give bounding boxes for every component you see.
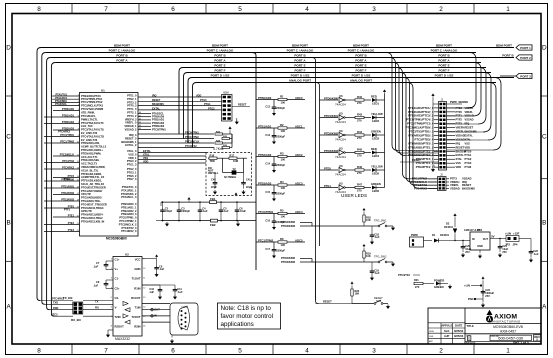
capacitor C17 — [273, 242, 275, 248]
svg-text:R21: R21 — [414, 278, 419, 282]
svg-text:PTB1/AD1: PTB1/AD1 — [258, 124, 272, 128]
svg-text:VREFH: VREFH — [456, 126, 465, 130]
ground under C19 — [371, 274, 373, 276]
J1 right pin wires and labels — [447, 106, 478, 169]
svg-text:GND: GND — [477, 245, 483, 248]
svg-text:15: 15 — [143, 316, 145, 318]
svg-text:RESET_0: RESET_0 — [125, 136, 137, 140]
J1 left pin wires and labels — [406, 106, 439, 169]
svg-text:10M: 10M — [233, 159, 238, 163]
svg-text:VREFH_3: VREFH_3 — [125, 117, 137, 121]
svg-text:PTG3_1: PTG3_1 — [127, 170, 137, 174]
svg-text:A: A — [542, 304, 547, 311]
svg-text:LED4: LED4 — [372, 154, 380, 158]
svg-text:BDM PORT: BDM PORT — [496, 44, 512, 48]
svg-text:8/25/04: 8/25/04 — [454, 334, 464, 338]
svg-text:U3: U3 — [339, 147, 343, 151]
svg-text:10: 10 — [143, 268, 145, 270]
svg-text:GPIO,TR: GPIO,TR — [81, 209, 92, 213]
svg-text:PTE1: PTE1 — [68, 215, 75, 218]
svg-text:PORT B: PORT B — [438, 54, 450, 58]
svg-text:PTC3/TX2: PTC3/TX2 — [185, 145, 197, 148]
svg-text:TBD: TBD — [210, 159, 215, 163]
svg-text:42: 42 — [139, 119, 141, 121]
IC U1 right pin wires to pull-ups — [138, 132, 214, 149]
resistor R6 — [256, 237, 305, 247]
svg-text:INSTALL: INSTALL — [208, 171, 219, 175]
svg-text:B: B — [542, 220, 546, 227]
LED LED6 GREEN — [371, 182, 385, 193]
svg-text:TXD: TXD — [53, 301, 58, 305]
svg-text:5: 5 — [111, 297, 112, 299]
bus line PORT F — [188, 72, 492, 74]
bus left wrap corners — [37, 48, 55, 67]
svg-text:LM1117-3.3V: LM1117-3.3V — [464, 228, 480, 232]
crystal box wires — [208, 158, 247, 172]
PAD label at bulk cap — [474, 298, 483, 300]
svg-text:8/25/04: 8/25/04 — [454, 329, 464, 333]
svg-text:270: 270 — [357, 136, 362, 140]
svg-text:PTH6_2: PTH6_2 — [127, 174, 137, 178]
svg-text:PTC0/TxD1,PWM0: PTC0/TxD1,PWM0 — [81, 107, 104, 111]
svg-text:PTH2/AD13,KBI_IN: PTH2/AD13,KBI_IN — [81, 219, 104, 223]
inverter U3C — [320, 129, 347, 141]
svg-text:RED: RED — [371, 147, 377, 151]
capacitor C7 — [106, 260, 113, 262]
svg-text:XTAL: XTAL — [465, 137, 472, 141]
svg-text:FB1: FB1 — [210, 197, 216, 201]
VDD on bypass rail — [188, 197, 191, 201]
resistor R17 in crystal box — [229, 157, 237, 159]
svg-text:PTD0/KBI0: PTD0/KBI0 — [324, 96, 339, 100]
IC U1 left pin wires group A — [52, 94, 79, 107]
title block divider — [464, 308, 466, 344]
title block left table — [428, 323, 465, 344]
capacitor C2 — [162, 202, 164, 208]
svg-text:17: 17 — [77, 193, 79, 195]
svg-text:R43: R43 — [357, 113, 363, 117]
svg-text:PTD3/KBI3: PTD3/KBI3 — [281, 260, 296, 264]
svg-text:ACC,TACLT3: ACC,TACLT3 — [81, 162, 97, 166]
svg-text:2: 2 — [439, 6, 443, 13]
svg-text:PTA0/TX1_0: PTA0/TX1_0 — [122, 185, 137, 189]
resistor R20 — [351, 289, 353, 296]
IC U1 right pin wires to BDM area — [138, 95, 222, 111]
svg-text:PTE1_0: PTE1_0 — [127, 94, 137, 98]
capacitor C9 — [156, 259, 158, 267]
AXIOM logo — [486, 310, 521, 324]
svg-text:PORT D / /SS: PORT D / /SS — [435, 74, 454, 78]
resistor R19 — [363, 244, 365, 247]
svg-text:PTB0/AD0_0: PTB0/AD0_0 — [121, 202, 137, 206]
svg-text:7: 7 — [104, 348, 108, 355]
svg-text:.1uF: .1uF — [159, 267, 165, 271]
VDD above pull-ups — [229, 127, 232, 131]
svg-text:ANALOG PORT: ANALOG PORT — [350, 79, 372, 83]
svg-text:PTG2_0: PTG2_0 — [127, 167, 137, 171]
regulator output wire — [490, 238, 506, 240]
svg-text:XTAL: XTAL — [456, 157, 463, 161]
bus line PORT D / /SS — [192, 77, 514, 79]
svg-text:C1+: C1+ — [115, 258, 121, 262]
svg-text:3: 3 — [372, 6, 376, 13]
note box C18 — [218, 303, 281, 329]
svg-text:YELLOW: YELLOW — [371, 112, 383, 116]
svg-text:A: A — [6, 304, 11, 311]
svg-text:T1IN: T1IN — [135, 306, 141, 310]
svg-text:14: 14 — [143, 307, 145, 309]
svg-text:PORT A: PORT A — [294, 59, 306, 63]
sheet row — [465, 341, 541, 345]
svg-text:2200pF: 2200pF — [276, 248, 285, 252]
svg-text:VREFL_0: VREFL_0 — [125, 121, 137, 125]
svg-text:PTG0/EXT,TRIGGER: PTG0/EXT,TRIGGER — [81, 185, 106, 189]
svg-text:270: 270 — [357, 154, 362, 158]
svg-text:.1uF: .1uF — [177, 290, 183, 294]
bypass rail stub to U1 — [160, 202, 162, 206]
svg-text:PORT E: PORT E — [214, 64, 225, 68]
svg-text:VDDAD_1: VDDAD_1 — [124, 124, 137, 128]
svg-text:3: 3 — [111, 278, 112, 280]
svg-text:.1uF: .1uF — [93, 284, 99, 288]
svg-text:2: 2 — [439, 348, 443, 355]
svg-text:R5: R5 — [280, 209, 284, 213]
svg-text:VDD: VDD — [456, 165, 462, 169]
capacitor C6 — [236, 202, 238, 208]
svg-text:PTD2/KBI2: PTD2/KBI2 — [281, 256, 296, 260]
port connector arrow BDM PORT — [516, 45, 532, 50]
svg-text:BKGD/MS: BKGD/MS — [152, 103, 164, 106]
svg-text:45: 45 — [139, 128, 141, 130]
svg-text:C40: C40 — [211, 178, 216, 182]
svg-text:PTH1/AD12,TRG2: PTH1/AD12,TRG2 — [81, 216, 103, 220]
diode D1 — [434, 239, 439, 243]
LED LED3 GREEN — [371, 129, 385, 140]
resistor R18 — [363, 208, 365, 211]
ground under C13 — [273, 138, 275, 140]
svg-text:10: 10 — [77, 142, 79, 144]
svg-text:VDD: VDD — [143, 161, 148, 164]
capacitor C23 bulk — [482, 290, 484, 292]
switch RESET SW3 — [352, 296, 388, 304]
svg-text:PAD: PAD — [468, 297, 474, 301]
svg-text:270: 270 — [357, 171, 362, 175]
+LIN pad circuit — [471, 285, 480, 287]
svg-text:PTE2/PTF2_3: PTE2/PTF2_3 — [416, 165, 434, 169]
svg-text:PTH0/AD11,KBD4-: PTH0/AD11,KBD4- — [81, 213, 104, 217]
svg-text:ADC3: ADC3 — [295, 181, 303, 185]
svg-text:LED3: LED3 — [372, 137, 380, 141]
svg-text:13: 13 — [143, 297, 145, 299]
bus mid drop corners — [179, 68, 197, 148]
ground after power LED — [449, 285, 452, 289]
BDM header J3 — [222, 92, 233, 122]
resistor R5 — [256, 209, 305, 219]
svg-text:PTC1/TPM2: PTC1/TPM2 — [60, 141, 74, 144]
svg-text:PTC0/TPM1_0: PTC0/TPM1_0 — [119, 216, 137, 220]
svg-text:PTG1_3: PTG1_3 — [127, 163, 137, 167]
capacitor C12 — [273, 100, 275, 106]
svg-text:LED5: LED5 — [372, 172, 380, 176]
svg-text:BKGD/MS: BKGD/MS — [465, 130, 478, 134]
svg-text:PTF3: PTF3 — [456, 122, 463, 126]
svg-text:PTC3/TX2: PTC3/TX2 — [398, 273, 410, 277]
capacitor C4 — [199, 202, 201, 208]
grid column ticks top — [72, 4, 474, 355]
switch TPG_SW1 — [300, 219, 393, 227]
svg-text:PTH7_3: PTH7_3 — [127, 177, 137, 181]
svg-text:PTE3_2: PTE3_2 — [127, 100, 137, 104]
svg-text:44: 44 — [139, 125, 141, 127]
reset circuit wire — [314, 262, 316, 301]
bypass rail top — [161, 201, 210, 203]
svg-text:PTC3/TX2_3: PTC3/TX2_3 — [122, 226, 138, 230]
svg-text:EV_LINK,T30: EV_LINK,T30 — [81, 131, 98, 135]
svg-text:R2OUT: R2OUT — [115, 325, 125, 329]
svg-text:PTB0/AD0: PTB0/AD0 — [62, 108, 75, 111]
svg-text:5: 5 — [238, 6, 242, 13]
svg-text:V-: V- — [115, 306, 118, 310]
bus line PORT E — [183, 67, 486, 69]
svg-text:.1uF: .1uF — [223, 209, 229, 213]
svg-text:2200pF: 2200pF — [276, 106, 285, 110]
capacitor C3 — [178, 202, 180, 208]
svg-text:2: 2 — [111, 268, 112, 270]
svg-text:.1uF: .1uF — [533, 252, 539, 256]
svg-text:PTA3/SCL_3: PTA3/SCL_3 — [121, 195, 137, 199]
svg-text:PORT F: PORT F — [356, 69, 367, 73]
U2 inside pin names — [115, 258, 141, 329]
svg-text:6: 6 — [171, 6, 175, 13]
svg-text:PORT 2: PORT 2 — [520, 56, 531, 60]
svg-text:R45: R45 — [357, 148, 363, 152]
IC U1 inside left pin name column — [81, 94, 107, 224]
title text — [467, 324, 524, 333]
svg-text:PTE0: PTE0 — [324, 166, 331, 170]
svg-text:PTF0: PTF0 — [456, 110, 463, 114]
svg-text:PTD2/KBI2: PTD2/KBI2 — [61, 192, 74, 195]
svg-text:2200pF: 2200pF — [276, 191, 285, 195]
svg-text:VDDAD: VDDAD — [450, 186, 460, 190]
svg-text:18: 18 — [77, 200, 79, 202]
VDD feed at power — [454, 214, 457, 218]
svg-text:2200pF: 2200pF — [276, 134, 285, 138]
svg-text:VDD: VDD — [465, 145, 471, 149]
svg-text:PORT E: PORT E — [438, 64, 449, 68]
svg-text:PTF2_1: PTF2_1 — [127, 111, 137, 115]
svg-text:4.7Kx4: 4.7Kx4 — [213, 147, 224, 151]
svg-text:PTA1/RX1_1: PTA1/RX1_1 — [121, 188, 137, 192]
ground under C40 — [214, 185, 216, 188]
svg-text:C8: C8 — [96, 280, 100, 284]
svg-text:PTG0: PTG0 — [465, 149, 472, 153]
svg-text:25V: 25V — [502, 250, 507, 254]
svg-text:PORT F: PORT F — [439, 69, 450, 73]
svg-text:21: 21 — [77, 223, 79, 225]
resistor R4 — [256, 180, 305, 190]
svg-text:ACLK_BL,T3L: ACLK_BL,T3L — [81, 168, 99, 172]
svg-text:RESET: RESET — [238, 103, 247, 107]
bus line PORT A — [55, 62, 481, 64]
svg-text:.1uF: .1uF — [149, 291, 155, 294]
VDD at crystal box bottom — [235, 193, 237, 196]
svg-text:EXTAL_2: EXTAL_2 — [125, 143, 137, 147]
svg-text:74AC04: 74AC04 — [335, 120, 346, 124]
svg-text:PTG2: PTG2 — [208, 108, 215, 111]
svg-text:PTC1/TPM2_1: PTC1/TPM2_1 — [119, 219, 137, 223]
svg-text:EXTAL: EXTAL — [465, 133, 474, 137]
svg-text:22: 22 — [77, 230, 79, 232]
grid row labels — [6, 45, 547, 311]
IC U1 right pin wires to crystal box — [138, 150, 206, 164]
svg-text:.1uF: .1uF — [202, 209, 208, 213]
svg-text:APP: APP — [429, 340, 434, 343]
svg-text:PORT E: PORT E — [355, 64, 366, 68]
svg-text:BDM: BDM — [223, 92, 228, 95]
svg-text:U3: U3 — [339, 94, 343, 98]
svg-text:IRQ_3: IRQ_3 — [129, 133, 137, 137]
svg-text:PORT C / ANALOG: PORT C / ANALOG — [207, 49, 234, 53]
svg-text:PORT B: PORT B — [502, 54, 514, 58]
title block doc rule — [465, 333, 541, 335]
svg-text:C16: C16 — [265, 220, 270, 223]
svg-text:SCALE: SCALE — [466, 341, 475, 345]
svg-text:LED6: LED6 — [372, 189, 380, 193]
svg-text:RESET: RESET — [465, 126, 474, 130]
power LED wire — [413, 274, 420, 276]
resistor R1 — [256, 95, 305, 105]
svg-text:POWER: POWER — [434, 279, 444, 283]
capacitor C13 — [273, 128, 275, 134]
svg-text:1: 1 — [78, 95, 79, 97]
bus line PORT B — [51, 57, 514, 59]
svg-text:JP4: JP4 — [513, 242, 518, 246]
svg-text:2: 2 — [78, 98, 79, 100]
DB9 connector CON — [170, 303, 198, 335]
svg-text:PTG3: PTG3 — [465, 161, 472, 165]
svg-text:PTC2/TA0,FAULT0: PTC2/TA0,FAULT0 — [81, 121, 104, 125]
svg-text:PTF0/AD4,KBD0,: PTF0/AD4,KBD0, — [81, 172, 102, 176]
svg-text:22pF: 22pF — [211, 185, 217, 189]
ferrite bead FB1 — [210, 201, 217, 204]
svg-text:PTG3/AD9,TRG-: PTG3/AD9,TRG- — [81, 199, 101, 203]
svg-text:APPVLS: APPVLS — [441, 324, 452, 328]
svg-text:T2OUT: T2OUT — [131, 315, 140, 319]
svg-text:PTC2/MCLK: PTC2/MCLK — [60, 154, 75, 157]
svg-text:C12: C12 — [265, 106, 270, 109]
svg-text:PORT A: PORT A — [116, 59, 128, 63]
svg-text:1000pF: 1000pF — [181, 209, 190, 213]
IC U1 left pin wires group B — [44, 108, 80, 232]
ground under C14 — [273, 167, 275, 169]
net labels at TPG_SW2 — [281, 256, 312, 264]
svg-text:100: 100 — [281, 158, 286, 162]
svg-text:R2IN: R2IN — [134, 325, 140, 329]
svg-text:U3: U3 — [339, 182, 343, 186]
capacitor C41 — [243, 173, 245, 182]
svg-text:RESET: RESET — [456, 145, 465, 149]
svg-text:FB2: FB2 — [210, 223, 216, 227]
svg-text:C13: C13 — [265, 134, 270, 137]
ground left bypass — [166, 222, 169, 226]
svg-text:R6: R6 — [280, 237, 284, 241]
svg-text:PTD1/AD1,KBD1+: PTD1/AD1,KBD1+ — [81, 148, 103, 152]
svg-text:OUT: OUT — [483, 238, 489, 241]
svg-text:PTG1/AD7,KBD2/: PTG1/AD7,KBD2/ — [81, 189, 102, 193]
U2 pin number ticks — [111, 259, 146, 328]
wires jumper to U2 — [83, 300, 113, 317]
svg-text:PORT A: PORT A — [355, 59, 367, 63]
bus line ANALOG PORT — [197, 82, 497, 84]
svg-text:XTAL_3: XTAL_3 — [127, 149, 137, 153]
svg-text:22pF: 22pF — [246, 185, 252, 189]
svg-text:Note: C18 is np to: Note: C18 is np to — [221, 305, 272, 312]
svg-text:PTD1/KBI1: PTD1/KBI1 — [324, 114, 339, 118]
svg-text:PORT C / ANALOG: PORT C / ANALOG — [431, 49, 458, 53]
bus drop wire x256 — [255, 56, 257, 271]
svg-text:PTC5: PTC5 — [51, 313, 58, 317]
svg-text:74AC04: 74AC04 — [335, 155, 346, 159]
inverter U3A — [320, 94, 347, 106]
svg-text:PTD0/AD0,A80,: PTD0/AD0,A80, — [81, 141, 100, 145]
crystal Y2 — [232, 171, 236, 175]
svg-text:100pF: 100pF — [165, 209, 173, 213]
RS232 wires from left bus — [40, 301, 73, 317]
bus line PORT C / ANALOG — [46, 52, 476, 54]
svg-text:R2: R2 — [280, 123, 284, 127]
svg-text:U1: U1 — [101, 88, 105, 92]
svg-text:PTF3_2: PTF3_2 — [127, 114, 137, 118]
svg-text:PTB2/AD2: PTB2/AD2 — [258, 153, 272, 157]
svg-text:TITLE: TITLE — [467, 324, 474, 328]
regulator VR1 — [470, 232, 490, 250]
svg-text:PTC3/TA1,FAULT1/: PTC3/TA1,FAULT1/ — [81, 128, 104, 132]
ground under VR1 — [479, 250, 481, 253]
svg-text:PTG2: PTG2 — [465, 157, 472, 161]
resistor R3 — [256, 152, 305, 162]
ground under C16 — [273, 224, 275, 226]
J2 right labels — [446, 177, 475, 191]
svg-text:+12F: +12F — [513, 232, 520, 236]
svg-text:PTB3/AD3: PTB3/AD3 — [258, 181, 272, 185]
svg-text:PTC1/TPM2: PTC1/TPM2 — [185, 136, 199, 139]
bus mid-right drop bundle — [386, 53, 439, 189]
svg-text:R1IN: R1IN — [134, 286, 140, 290]
svg-text:GREEN: GREEN — [371, 129, 381, 133]
svg-text:R47: R47 — [357, 183, 363, 187]
ground under C41 — [243, 185, 245, 188]
ground under C12 — [273, 110, 275, 112]
bus line BDM PORT — [41, 47, 514, 49]
capacitor C8 — [106, 279, 113, 281]
ferrite bead FB2 — [211, 219, 218, 222]
svg-text:T2IN: T2IN — [115, 315, 121, 319]
capacitor C19 — [371, 262, 373, 270]
net labels at TPG_SW1 — [281, 220, 312, 228]
svg-text:1N4001: 1N4001 — [440, 233, 450, 237]
inverter U3E — [320, 164, 347, 176]
bus drop wire x319 — [319, 86, 321, 247]
svg-text:PTB2/AD2_2: PTB2/AD2_2 — [121, 209, 137, 213]
wire BDM to RESET label — [232, 106, 250, 108]
svg-text:40: 40 — [139, 112, 141, 114]
svg-text:PTE1: PTE1 — [324, 184, 331, 188]
capacitor C20 — [462, 241, 464, 246]
svg-text:U3: U3 — [339, 164, 343, 168]
svg-text:PTG4/EXT_TRIGGER: PTG4/EXT_TRIGGER — [81, 202, 107, 206]
svg-text:RXD: RXD — [53, 306, 59, 310]
svg-text:BDM PORT: BDM PORT — [353, 44, 369, 48]
